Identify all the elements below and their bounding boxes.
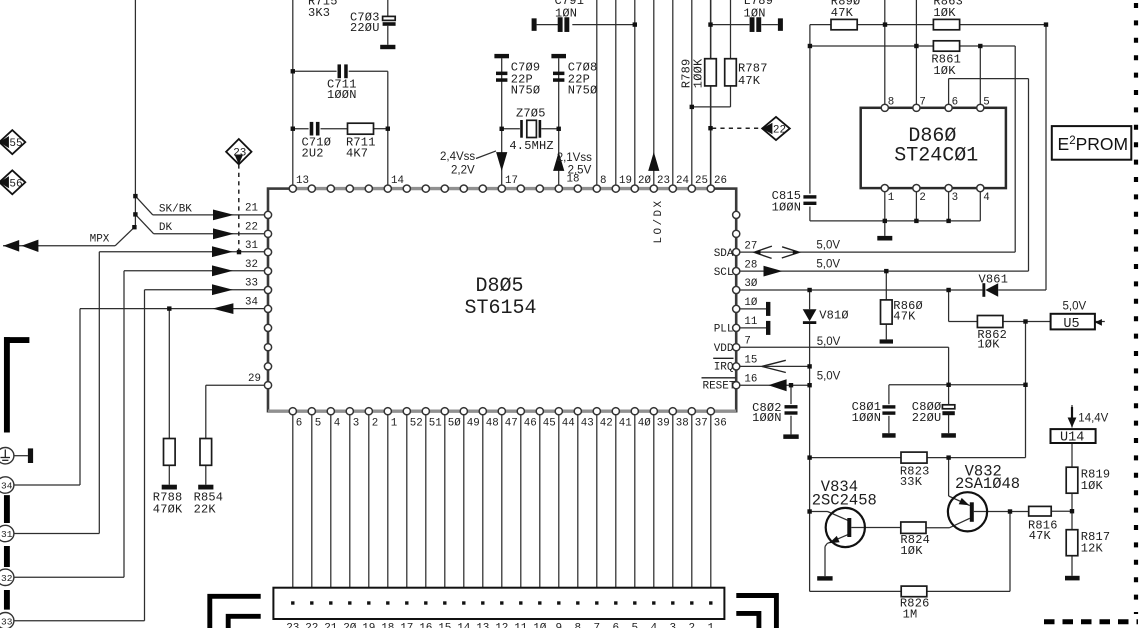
svg-text:2: 2 xyxy=(919,192,925,204)
svg-text:18: 18 xyxy=(381,622,394,628)
svg-text:1ØN: 1ØN xyxy=(555,7,577,21)
svg-text:3: 3 xyxy=(669,622,676,628)
svg-text:51: 51 xyxy=(429,417,442,429)
svg-text:15: 15 xyxy=(744,355,757,367)
svg-text:1Ø: 1Ø xyxy=(533,622,547,628)
svg-text:9: 9 xyxy=(555,622,562,628)
svg-text:55: 55 xyxy=(9,138,22,150)
svg-text:LO/DX: LO/DX xyxy=(653,198,665,243)
svg-text:5,0V: 5,0V xyxy=(817,336,841,348)
svg-text:23: 23 xyxy=(657,175,670,187)
svg-text:32: 32 xyxy=(245,259,258,271)
svg-text:1ØN: 1ØN xyxy=(744,7,766,21)
svg-text:RESET: RESET xyxy=(702,381,735,393)
svg-text:V861: V861 xyxy=(979,273,1009,287)
svg-text:41: 41 xyxy=(619,417,632,429)
svg-text:14: 14 xyxy=(457,622,471,628)
svg-text:2,2V: 2,2V xyxy=(451,164,475,176)
svg-text:2: 2 xyxy=(372,417,378,429)
svg-text:4Ø: 4Ø xyxy=(638,417,651,429)
svg-text:56: 56 xyxy=(9,178,22,190)
svg-text:ST24CØ1: ST24CØ1 xyxy=(894,144,978,167)
svg-text:45: 45 xyxy=(543,417,556,429)
svg-text:17: 17 xyxy=(400,622,413,628)
svg-text:V81Ø: V81Ø xyxy=(819,309,849,323)
svg-text:6: 6 xyxy=(952,96,958,108)
svg-text:2Ø: 2Ø xyxy=(343,622,357,628)
svg-text:4K7: 4K7 xyxy=(346,147,368,161)
svg-text:8: 8 xyxy=(600,175,606,187)
svg-text:17: 17 xyxy=(505,175,518,187)
svg-text:47K: 47K xyxy=(831,6,854,20)
svg-text:47: 47 xyxy=(505,417,518,429)
svg-text:4.5MHZ: 4.5MHZ xyxy=(509,139,553,153)
svg-text:N75Ø: N75Ø xyxy=(511,84,541,98)
svg-text:1ØØN: 1ØØN xyxy=(772,201,802,215)
svg-text:16: 16 xyxy=(419,622,432,628)
svg-text:1ØK: 1ØK xyxy=(933,64,956,78)
svg-text:47ØK: 47ØK xyxy=(153,503,183,517)
svg-text:U14: U14 xyxy=(1060,430,1084,445)
svg-text:13: 13 xyxy=(476,622,489,628)
svg-text:3: 3 xyxy=(353,417,359,429)
svg-text:IRQ: IRQ xyxy=(714,361,734,373)
svg-text:7: 7 xyxy=(593,622,600,628)
svg-text:47K: 47K xyxy=(738,74,761,88)
svg-text:11: 11 xyxy=(514,622,528,628)
svg-text:N75Ø: N75Ø xyxy=(568,84,598,98)
svg-text:22: 22 xyxy=(245,222,258,234)
svg-text:2SC2458: 2SC2458 xyxy=(812,492,877,510)
svg-text:1ØØN: 1ØØN xyxy=(327,88,357,102)
svg-text:47K: 47K xyxy=(893,310,916,324)
svg-text:PLL: PLL xyxy=(714,324,734,336)
svg-text:1ØK: 1ØK xyxy=(977,338,1000,352)
svg-text:1: 1 xyxy=(888,192,894,204)
svg-text:42: 42 xyxy=(600,417,613,429)
svg-text:28: 28 xyxy=(744,259,757,271)
svg-text:2: 2 xyxy=(688,622,695,628)
svg-text:8: 8 xyxy=(888,96,894,108)
svg-text:47K: 47K xyxy=(1029,529,1052,543)
svg-text:44: 44 xyxy=(562,417,575,429)
svg-text:21: 21 xyxy=(245,203,258,215)
svg-text:34: 34 xyxy=(245,297,258,309)
svg-text:1M: 1M xyxy=(903,608,918,622)
svg-text:29: 29 xyxy=(248,373,261,385)
svg-text:11: 11 xyxy=(744,316,757,328)
svg-text:33K: 33K xyxy=(900,475,923,489)
svg-text:D8Ø5: D8Ø5 xyxy=(475,275,523,298)
svg-text:22: 22 xyxy=(305,622,318,628)
svg-text:SCL: SCL xyxy=(714,267,734,279)
svg-text:3Ø: 3Ø xyxy=(744,278,757,290)
svg-text:31: 31 xyxy=(1,529,13,540)
svg-text:1ØK: 1ØK xyxy=(933,6,956,20)
svg-text:5,0V: 5,0V xyxy=(817,371,841,383)
svg-text:DK: DK xyxy=(159,222,173,234)
svg-text:2,4Vss: 2,4Vss xyxy=(440,151,475,163)
svg-text:49: 49 xyxy=(467,417,480,429)
svg-text:2U2: 2U2 xyxy=(302,147,324,161)
svg-text:12: 12 xyxy=(495,622,508,628)
svg-text:1ØØN: 1ØØN xyxy=(752,411,782,425)
svg-text:18: 18 xyxy=(567,174,580,186)
svg-text:1: 1 xyxy=(707,622,714,628)
svg-text:31: 31 xyxy=(245,240,258,252)
svg-text:SK/BK: SK/BK xyxy=(159,204,192,216)
svg-text:3K3: 3K3 xyxy=(308,6,330,20)
svg-text:1ØØN: 1ØØN xyxy=(852,411,882,425)
svg-text:7: 7 xyxy=(744,335,750,347)
svg-text:33: 33 xyxy=(245,278,258,290)
svg-text:12K: 12K xyxy=(1081,541,1104,555)
svg-text:27: 27 xyxy=(744,240,757,252)
svg-text:2SA1Ø48: 2SA1Ø48 xyxy=(955,475,1020,493)
svg-text:6: 6 xyxy=(296,417,302,429)
svg-text:22: 22 xyxy=(773,124,786,136)
svg-text:1ØØK: 1ØØK xyxy=(692,58,706,88)
svg-text:8: 8 xyxy=(574,622,581,628)
svg-text:2Ø: 2Ø xyxy=(638,175,651,187)
svg-text:13: 13 xyxy=(296,175,309,187)
svg-text:5Ø: 5Ø xyxy=(448,417,461,429)
svg-text:37: 37 xyxy=(695,417,708,429)
svg-text:4: 4 xyxy=(334,417,340,429)
svg-text:VDD: VDD xyxy=(714,343,734,355)
svg-text:14: 14 xyxy=(391,175,404,187)
svg-text:14,4V: 14,4V xyxy=(1078,413,1108,425)
svg-text:5: 5 xyxy=(983,96,989,108)
svg-text:Z7Ø5: Z7Ø5 xyxy=(516,107,546,121)
svg-text:U5: U5 xyxy=(1063,317,1079,332)
svg-text:24: 24 xyxy=(676,175,689,187)
svg-text:22ØU: 22ØU xyxy=(912,411,942,425)
svg-text:6: 6 xyxy=(612,622,619,628)
svg-text:19: 19 xyxy=(619,175,632,187)
svg-text:33: 33 xyxy=(1,616,13,627)
svg-text:38: 38 xyxy=(676,417,689,429)
svg-text:52: 52 xyxy=(410,417,423,429)
svg-text:22ØU: 22ØU xyxy=(350,21,380,35)
svg-text:5,0V: 5,0V xyxy=(816,239,840,251)
svg-text:46: 46 xyxy=(524,417,537,429)
svg-text:ST6154: ST6154 xyxy=(464,297,536,320)
svg-text:1: 1 xyxy=(391,417,397,429)
svg-text:E2PROM: E2PROM xyxy=(1058,134,1129,154)
svg-text:1ØK: 1ØK xyxy=(900,544,923,558)
svg-text:1ØK: 1ØK xyxy=(1081,479,1104,493)
svg-text:2,1Vss: 2,1Vss xyxy=(557,152,592,164)
svg-text:5,0V: 5,0V xyxy=(1063,301,1087,313)
svg-text:21: 21 xyxy=(324,622,338,628)
svg-text:16: 16 xyxy=(744,373,757,385)
svg-text:48: 48 xyxy=(486,417,499,429)
svg-text:MPX: MPX xyxy=(90,233,110,245)
svg-text:SDA: SDA xyxy=(714,248,734,260)
svg-text:1Ø: 1Ø xyxy=(744,297,757,309)
svg-text:15: 15 xyxy=(438,622,451,628)
svg-text:5: 5 xyxy=(315,417,321,429)
svg-text:3: 3 xyxy=(952,192,958,204)
svg-text:25: 25 xyxy=(695,175,708,187)
svg-text:22K: 22K xyxy=(194,503,217,517)
svg-text:4: 4 xyxy=(983,192,989,204)
svg-text:7: 7 xyxy=(919,96,925,108)
svg-text:39: 39 xyxy=(657,417,670,429)
svg-text:34: 34 xyxy=(1,481,13,492)
svg-text:19: 19 xyxy=(362,622,375,628)
svg-text:4: 4 xyxy=(650,622,657,628)
svg-text:43: 43 xyxy=(581,417,594,429)
svg-text:5: 5 xyxy=(631,622,638,628)
svg-text:36: 36 xyxy=(714,417,727,429)
svg-text:23: 23 xyxy=(233,148,246,160)
svg-text:32: 32 xyxy=(1,573,13,584)
svg-text:26: 26 xyxy=(714,175,727,187)
svg-text:23: 23 xyxy=(286,622,299,628)
svg-text:5,0V: 5,0V xyxy=(816,258,840,270)
